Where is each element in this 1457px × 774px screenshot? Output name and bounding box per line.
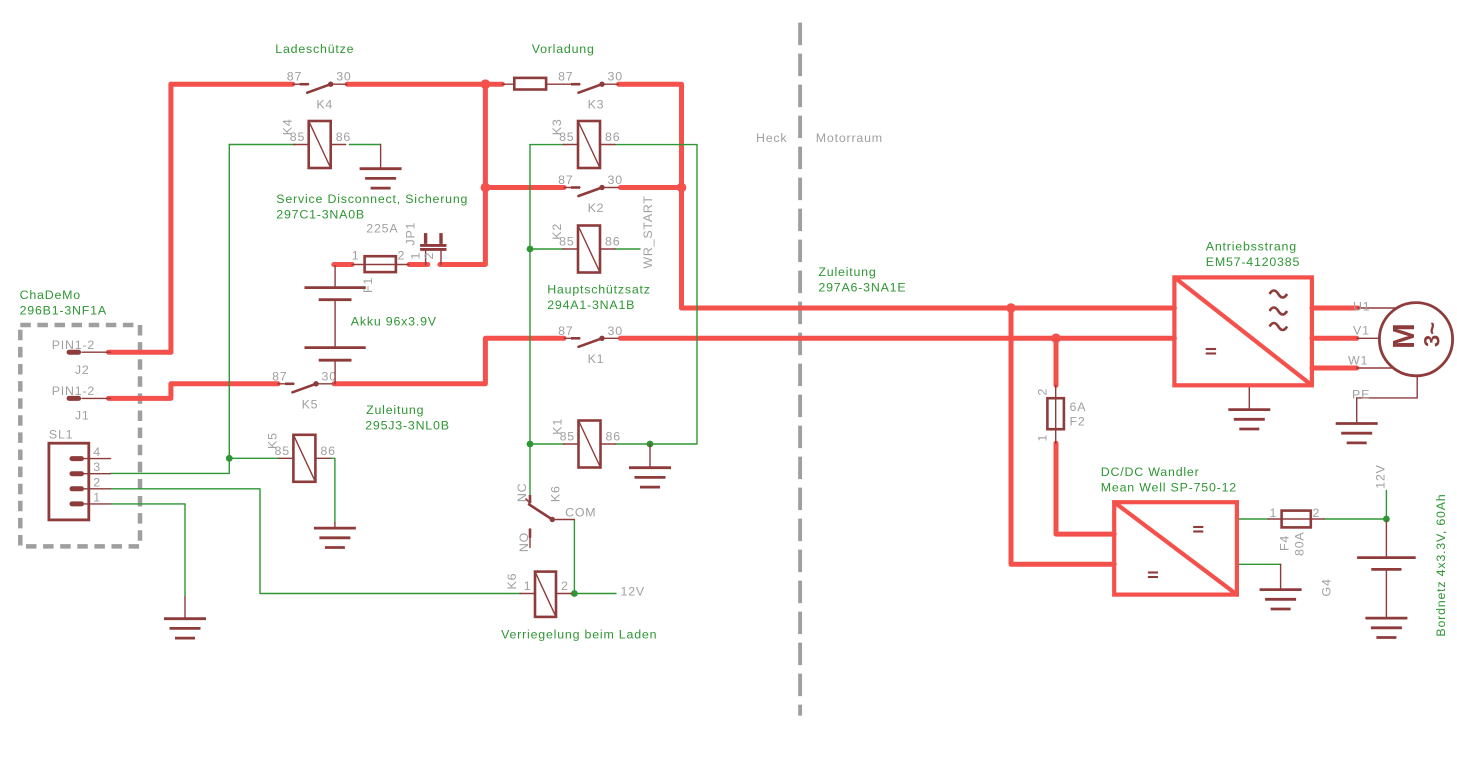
svg-text:Akku 96x3.9V: Akku 96x3.9V <box>351 315 437 329</box>
svg-text:30: 30 <box>608 324 623 338</box>
ground at K1 coil <box>629 444 671 487</box>
ground at DC/DC output <box>1260 564 1302 609</box>
net label 12V at G4 <box>1374 464 1388 488</box>
svg-text:1: 1 <box>352 249 360 263</box>
svg-text:86: 86 <box>320 444 335 458</box>
svg-text:EM57-4120385: EM57-4120385 <box>1206 255 1300 269</box>
wire K3/30 top to x681 riser <box>619 84 682 308</box>
svg-text:F1: F1 <box>361 277 375 293</box>
svg-text:J2: J2 <box>75 363 90 377</box>
svg-text:K6: K6 <box>505 573 519 590</box>
wire inverter W1 stub <box>1312 366 1357 371</box>
svg-text:K6: K6 <box>548 485 562 502</box>
relay coil K6 pins 1/2 <box>505 572 572 617</box>
junction K5 85 tap <box>226 455 233 462</box>
svg-text:1: 1 <box>93 490 101 504</box>
svg-text:2: 2 <box>1313 506 1321 520</box>
svg-text:1: 1 <box>408 252 422 260</box>
label Hauptschuetzsatz 294A1-3NA1B <box>547 283 651 313</box>
relay contact K6 NC/NO/COM <box>515 483 596 552</box>
svg-text:87: 87 <box>287 70 302 84</box>
svg-text:PIN1-2: PIN1-2 <box>52 384 95 398</box>
wire WR bus x530 down to K6 NC <box>529 145 531 495</box>
svg-text:297A6-3NA1E: 297A6-3NA1E <box>818 281 906 295</box>
label Zuleitung 297A6-3NA1E <box>818 265 906 295</box>
junction 12V at K6 coil <box>571 590 578 597</box>
label Antriebsstrang EM57-4120385 <box>1206 240 1300 270</box>
svg-text:296B1-3NF1A: 296B1-3NF1A <box>20 304 107 318</box>
label Zuleitung 295J3-3NL0B <box>365 403 450 433</box>
svg-text:PIN1-2: PIN1-2 <box>52 338 95 352</box>
relay coil K4 85/86 <box>281 118 351 168</box>
svg-text:NC: NC <box>515 483 529 503</box>
svg-text:1: 1 <box>1035 434 1049 442</box>
svg-text:M: M <box>1386 323 1421 349</box>
svg-text:30: 30 <box>336 70 351 84</box>
svg-text:297C1-3NA0B: 297C1-3NA0B <box>276 208 365 222</box>
wire motor PE to ground <box>1352 376 1417 416</box>
svg-text:K5: K5 <box>265 432 279 449</box>
junction x681 K2/30 <box>677 183 687 193</box>
svg-text:1: 1 <box>524 579 532 593</box>
label Motorraum <box>816 131 883 145</box>
junction K2 85 tap <box>527 246 534 253</box>
svg-text:PE: PE <box>1352 388 1370 402</box>
wire riser tap to K2/87 <box>485 185 564 190</box>
wire JP1 pin2 up-riser x485 to precharge node <box>440 84 486 264</box>
wire J1 pin to K5/87 <box>109 384 279 399</box>
svg-text:3~: 3~ <box>1420 322 1445 347</box>
svg-text:Antriebsstrang: Antriebsstrang <box>1206 240 1297 254</box>
svg-text:DC/DC Wandler: DC/DC Wandler <box>1101 465 1200 479</box>
svg-text:87: 87 <box>558 173 573 187</box>
wire fuse F4 to battery G4 node <box>1324 518 1386 520</box>
svg-text:86: 86 <box>605 130 620 144</box>
wire inverter U1 stub <box>1312 306 1358 311</box>
svg-text:30: 30 <box>608 70 623 84</box>
wire K1 coil 86 to ground node <box>616 443 651 445</box>
svg-text:2: 2 <box>561 579 569 593</box>
svg-text:Service Disconnect, Sicherung: Service Disconnect, Sicherung <box>276 192 468 206</box>
svg-text:294A1-3NA1B: 294A1-3NA1B <box>547 298 635 312</box>
resistor R1 precharge <box>502 78 564 90</box>
wire K1/30 to inverter DC- <box>621 336 1175 341</box>
ground at K5 coil <box>314 523 356 548</box>
svg-text:G4: G4 <box>1320 578 1334 596</box>
junction coil ground node <box>647 441 654 448</box>
wire K2 coil 85 tap <box>530 248 563 250</box>
connector CN1 ChaDeMo dashed outline <box>20 325 140 546</box>
label DC/DC Wandler Mean Well SP-750-12 <box>1101 465 1237 495</box>
jumper JP1 service disconnect <box>404 222 447 265</box>
battery F1 Akku 96x3.9V cells <box>305 266 366 384</box>
svg-text:1: 1 <box>1269 506 1277 520</box>
fuse F4 80A <box>1268 506 1324 556</box>
fuse F1 225A <box>352 222 409 293</box>
svg-text:COM: COM <box>565 506 596 520</box>
ground at motor PE <box>1336 415 1378 443</box>
wire branch to K5 coil 85 <box>229 457 279 459</box>
junction inverter DC- tap <box>1051 334 1061 344</box>
svg-text:295J3-3NL0B: 295J3-3NL0B <box>365 419 450 433</box>
wire K4 coil 85 net <box>229 144 295 146</box>
svg-text:WR_START: WR_START <box>641 195 655 268</box>
DC/DC converter U2 box <box>1114 502 1237 594</box>
svg-text:87: 87 <box>558 324 573 338</box>
svg-text:K3: K3 <box>588 98 605 112</box>
svg-text:F4: F4 <box>1278 535 1292 551</box>
svg-text:12V: 12V <box>621 585 645 599</box>
svg-text:3: 3 <box>93 460 101 474</box>
svg-text:Bordnetz 4x3.3V, 60Ah: Bordnetz 4x3.3V, 60Ah <box>1434 493 1448 636</box>
junction K1 85 tap <box>527 441 534 448</box>
svg-text:2: 2 <box>1035 388 1049 396</box>
svg-text:SL1: SL1 <box>49 428 73 442</box>
svg-text:NO: NO <box>517 532 531 552</box>
battery G4 12V Bordnetz <box>1320 521 1416 615</box>
junction precharge top <box>481 79 491 89</box>
wire DC/DC +12V out to fuse F4 <box>1237 518 1268 520</box>
relay contact K1 87/30 <box>558 324 623 366</box>
svg-text:U1: U1 <box>1353 300 1370 314</box>
wire inverter DC- to fuse F2 <box>1054 338 1059 385</box>
wire control bus x229 down to SL1 pin3 <box>111 145 230 474</box>
wire SL1 pin1 to ground <box>111 504 186 597</box>
net label WR_START <box>641 195 655 268</box>
wire F1 to JP1 pin1 <box>409 262 428 267</box>
relay contact K3 87/30 <box>558 70 623 112</box>
label Bordnetz 4x3.3V, 60Ah <box>1434 493 1448 636</box>
svg-text:J1: J1 <box>75 409 90 423</box>
svg-text:87: 87 <box>558 70 573 84</box>
wire K2/30 to x681 riser <box>621 185 682 190</box>
value label Akku 96x3.9V <box>351 315 437 329</box>
svg-text:Mean Well SP-750-12: Mean Well SP-750-12 <box>1101 481 1237 495</box>
relay coil K3 85/86 <box>550 118 620 168</box>
wire K5 coil 86 to ground <box>330 458 335 522</box>
label Ladeschuetze <box>275 42 354 56</box>
wire K1 coil 85 tap <box>530 443 564 445</box>
svg-text:Verriegelung beim Laden: Verriegelung beim Laden <box>501 628 657 642</box>
svg-text:K2: K2 <box>588 201 605 215</box>
wire K3 coil 85 to bus x530 <box>530 144 563 146</box>
label Service Disconnect, Sicherung <box>276 192 468 222</box>
ground at inverter case <box>1228 385 1270 429</box>
label Heck <box>756 131 787 145</box>
wire fuse F2 to DC/DC input <box>1056 443 1114 534</box>
ground at SL1 pin1 <box>164 597 206 638</box>
svg-text:Zuleitung: Zuleitung <box>366 403 424 417</box>
relay coil K2 85/86 <box>550 223 620 273</box>
relay contact K4 87/30 <box>287 70 352 112</box>
Heck / Motorraum divider dashed line <box>798 23 802 716</box>
inverter U1 EM57 drive unit box <box>1174 277 1312 385</box>
svg-text:JP1: JP1 <box>404 222 418 246</box>
fuse F2 6A <box>1035 385 1086 443</box>
connector J2 PIN1-2 <box>52 338 111 377</box>
label Vorladung <box>532 42 595 56</box>
svg-text:K1: K1 <box>588 352 605 366</box>
svg-text:4: 4 <box>93 445 101 459</box>
svg-text:W1: W1 <box>1348 354 1368 368</box>
wire battery+ stub to F1 <box>334 262 352 267</box>
relay coil K5 85/86 <box>265 432 335 482</box>
wire J2 riser vertical <box>168 84 173 352</box>
svg-text:87: 87 <box>272 369 287 383</box>
relay contact K2 87/30 <box>558 173 623 215</box>
svg-text:86: 86 <box>336 130 351 144</box>
svg-text:225A: 225A <box>366 222 398 236</box>
ground below battery G4 <box>1365 615 1407 638</box>
wire net WR_START stub from K2 86 <box>615 248 640 250</box>
label ChaDeMo 296B1-3NF1A <box>20 288 107 318</box>
svg-text:ChaDeMo: ChaDeMo <box>20 288 81 302</box>
wire DC/DC GND out to ground <box>1237 563 1281 565</box>
svg-text:V1: V1 <box>1353 324 1370 338</box>
connector SL1 pins 1-4 <box>49 428 111 520</box>
wire K6 COM down to 12V node <box>573 520 575 594</box>
svg-text:K4: K4 <box>281 118 295 135</box>
svg-text:Hauptschützsatz: Hauptschützsatz <box>547 283 651 297</box>
ground at K4 coil <box>360 145 402 189</box>
svg-text:Vorladung: Vorladung <box>532 42 595 56</box>
wire SL1 pin2 to K6 coil pin1 <box>111 489 521 594</box>
svg-text:Motorraum: Motorraum <box>816 131 883 145</box>
svg-text:2: 2 <box>422 252 436 260</box>
svg-text:K4: K4 <box>316 98 333 112</box>
relay coil K1 85/86 <box>551 418 621 468</box>
connector J1 PIN1-2 <box>52 384 111 422</box>
wire K6 coil pin2 to 12V label <box>571 593 617 595</box>
junction G4 12V node <box>1383 516 1390 523</box>
wire J2 pin to riser <box>109 350 171 355</box>
svg-text:30: 30 <box>608 173 623 187</box>
wire K4/30 to precharge node <box>347 82 502 87</box>
svg-text:K1: K1 <box>551 418 565 435</box>
svg-text:86: 86 <box>606 430 621 444</box>
svg-text:Ladeschütze: Ladeschütze <box>275 42 354 56</box>
wire K3 coil 86 to bus x697 <box>615 145 697 444</box>
svg-text:86: 86 <box>605 235 620 249</box>
wire HV+ top from J2 riser to K4 contact <box>171 82 293 87</box>
svg-text:80A: 80A <box>1293 532 1307 556</box>
wire K5/30 battery- up to K1/87 <box>334 338 564 384</box>
wire Zuleitung 297A6 to inverter <box>682 306 1175 311</box>
wire net 12V stub above G4 <box>1385 490 1387 519</box>
net label 12V at K6 <box>621 585 645 599</box>
wire inverter V1 stub <box>1312 336 1357 341</box>
wire K4 coil 86 to ground <box>349 144 380 146</box>
junction inverter DC+ tap <box>1006 303 1016 313</box>
svg-text:2: 2 <box>398 249 406 263</box>
svg-text:K5: K5 <box>302 397 319 411</box>
wire inverter DC+ drop x1011 <box>1011 308 1114 564</box>
junction K2 feed <box>481 183 491 193</box>
svg-text:K3: K3 <box>550 118 564 135</box>
svg-text:Zuleitung: Zuleitung <box>818 265 876 279</box>
label Verriegelung beim Laden <box>501 628 657 642</box>
svg-text:Heck: Heck <box>756 131 787 145</box>
svg-text:12V: 12V <box>1374 464 1388 488</box>
motor M1 3-phase <box>1348 300 1453 376</box>
svg-text:6A: 6A <box>1070 400 1087 414</box>
svg-text:2: 2 <box>93 475 101 489</box>
svg-text:K2: K2 <box>550 223 564 240</box>
relay contact K5 87/30 <box>272 369 337 411</box>
svg-text:F2: F2 <box>1070 415 1086 429</box>
